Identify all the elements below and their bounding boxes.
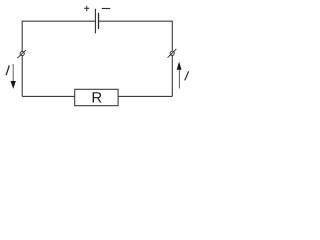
wire bottom-left segment (bottom-left corner to resistor) [22, 95, 74, 97]
current arrow I (right side, pointing up) [177, 62, 182, 89]
wire top-left segment (battery + terminal to top-left corner) [22, 20, 95, 22]
label I (left current) [6, 65, 9, 75]
label + (battery positive) [84, 6, 89, 12]
resistor R (box symbol) [75, 89, 118, 105]
label - (battery negative) [102, 8, 110, 10]
wire left (top-left corner down to bottom-left corner) [21, 21, 23, 97]
node A (left crossed-circle terminal on left wire) [17, 50, 26, 58]
wire right (top-right corner down to bottom-right corner) [171, 21, 173, 97]
node B (right crossed-circle terminal on right wire) [168, 49, 177, 58]
battery cell: negative plate (short) [98, 13, 100, 29]
label I (right current) [185, 71, 189, 80]
wire top-right segment (battery - terminal to top-right corner) [99, 20, 172, 22]
label R (resistor value label) [93, 92, 102, 102]
battery cell: positive plate (long) [94, 9, 96, 34]
wire bottom-right segment (resistor to bottom-right corner) [118, 95, 172, 97]
current arrow I (left side, pointing down) [11, 64, 16, 89]
